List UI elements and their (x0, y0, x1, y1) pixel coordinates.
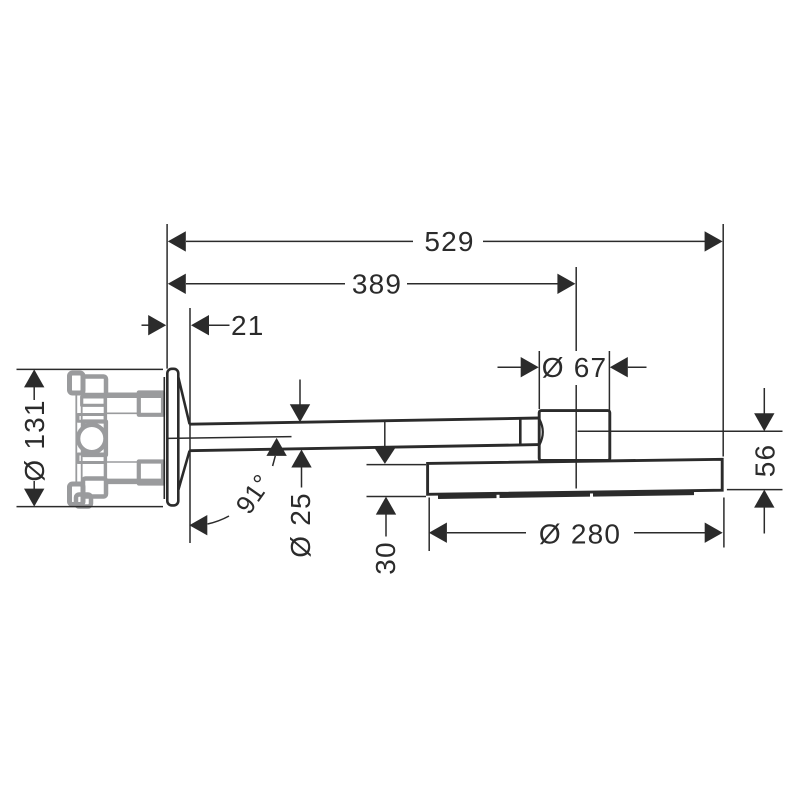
21 left arrow (148, 315, 166, 335)
svg-text:56: 56 (749, 444, 780, 478)
529 right arrow (705, 231, 723, 251)
56 top extension line (578, 430, 783, 432)
Ø131 dimension stems (33, 387, 35, 400)
389 right arrow (557, 274, 575, 294)
svg-text:529: 529 (424, 226, 474, 257)
Ø131 top arrow (24, 369, 44, 387)
top supply bar (106, 392, 164, 398)
30 top arrow (375, 448, 395, 464)
svg-text:Ø 25: Ø 25 (285, 492, 316, 558)
Ø25 bottom arrow (291, 450, 311, 468)
escutcheon cone bottom edge (178, 451, 189, 490)
21 right arrow (191, 315, 209, 335)
upper crossbar (82, 397, 106, 405)
Ø131 bottom extension line (17, 506, 164, 508)
529 left arrow (168, 231, 186, 251)
dimension line 529 (186, 240, 413, 242)
dimension texts (19, 226, 780, 575)
valve circle (78, 425, 105, 452)
angle axis thin line (169, 437, 292, 439)
bottom supply bar (106, 479, 164, 485)
svg-text:389: 389 (352, 268, 402, 299)
wall face extension line (166, 224, 168, 369)
valve square frame (84, 422, 107, 456)
top-left block (70, 373, 84, 393)
Ø280 dimension line (447, 532, 526, 534)
concealed basic body (iBox) gray assembly (70, 373, 164, 507)
arrowheads (24, 231, 775, 543)
bottom-right connector box (139, 462, 163, 484)
escutcheon wall plate flange edge (163, 377, 165, 499)
Ø67 left arrow (521, 357, 539, 377)
arm nut edge (519, 418, 522, 445)
escutcheon wall plate (167, 369, 178, 506)
91 degree curved tail (208, 516, 230, 524)
Ø131 top extension line (17, 368, 164, 370)
Ø67 extension lines (538, 351, 540, 409)
connector block Ø67 (539, 411, 610, 461)
top-mid block (83, 377, 106, 396)
Ø25 top arrow (290, 404, 310, 422)
56 bottom arrow (754, 490, 774, 508)
Ø131 bottom arrow (24, 489, 44, 507)
91 degree left arrow (189, 515, 207, 535)
nut curved face (539, 419, 542, 445)
30 arrow stems (384, 421, 386, 449)
91 degree up arrow (266, 438, 286, 456)
21 arrow tails (142, 324, 150, 326)
center extension line (389 / Ø67) (575, 267, 577, 351)
Ø280 left arrow (429, 523, 447, 543)
top thin pipe line (106, 412, 139, 414)
shower arm bottom edge (189, 445, 539, 451)
right extension line (529) (722, 224, 724, 457)
bottom-mid block (83, 479, 106, 497)
shower arm top edge (189, 418, 539, 424)
Ø280 right arrow (705, 523, 723, 543)
Ø67 right arrow (610, 357, 628, 377)
svg-text:21: 21 (231, 310, 265, 341)
30 extension lines (367, 464, 427, 466)
svg-text:Ø 67: Ø 67 (542, 352, 608, 383)
shower head plate (428, 459, 723, 494)
lower inner crossbar (78, 454, 105, 463)
top-right connector box (139, 393, 163, 415)
bottom thin pipe line (106, 461, 139, 463)
bottom foot (76, 495, 91, 507)
56 bottom extension line (727, 489, 783, 491)
svg-text:Ø 280: Ø 280 (539, 519, 621, 550)
left rail (76, 393, 81, 484)
upper inner crossbar (78, 415, 105, 422)
escutcheon cone top edge (178, 378, 189, 425)
21 right extension line / angle leg (189, 308, 191, 543)
right rail (104, 397, 107, 479)
svg-text:Ø 131: Ø 131 (19, 399, 50, 481)
389 left arrow (168, 274, 186, 294)
56 arrow stems (763, 388, 765, 414)
56 top arrow (754, 413, 774, 431)
Ø67 arrow tails (498, 366, 522, 368)
30 bottom arrow (376, 497, 396, 515)
svg-text:30: 30 (370, 541, 401, 575)
dimension graphics (17, 224, 783, 551)
Ø25 arrow stems (299, 380, 301, 406)
dimension line 389 (186, 283, 345, 285)
bottom-left block (70, 484, 84, 505)
spray face band (438, 493, 694, 497)
91 degree arrow stem (273, 456, 276, 466)
Ø280 extension lines (428, 498, 430, 552)
